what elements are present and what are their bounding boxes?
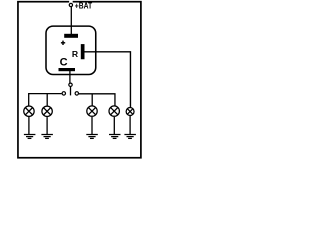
svg-text:+BAT: +BAT bbox=[75, 1, 92, 11]
svg-text:C: C bbox=[60, 57, 68, 69]
svg-text:R: R bbox=[72, 49, 79, 59]
